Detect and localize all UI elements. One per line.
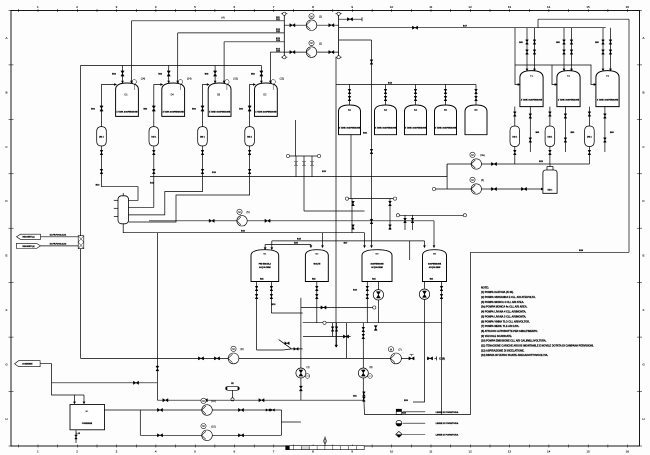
- wire long line y400: [157, 399, 364, 401]
- wire capsule 4 drain: [129, 146, 250, 222]
- wire pump line B: [284, 51, 338, 53]
- wire right feed drop tank D2: [269, 52, 271, 83]
- valve feed T1 1b: [533, 50, 536, 54]
- valve feed T2 1b: [570, 50, 573, 54]
- wire right collect line y164: [447, 163, 589, 165]
- wire riser x346: [346, 323, 348, 359]
- wire branch y40: [339, 39, 372, 41]
- dpump M4: [419, 289, 429, 299]
- wire long line y220: [149, 220, 434, 222]
- wire top distribution riser: [537, 19, 539, 28]
- valve left feed tank D2: [260, 71, 263, 76]
- wire mid tanks header: [336, 84, 476, 86]
- pump P3a: [471, 159, 481, 169]
- valve tank drain right 3a: [604, 114, 607, 118]
- svg-text:LINEE DI FORNITURA: LINEE DI FORNITURA: [436, 422, 459, 425]
- feed line 3: [224, 41, 284, 43]
- valve feed T1 0a: [526, 40, 529, 44]
- svg-text:15: 15: [586, 449, 590, 453]
- svg-text:M: M: [202, 424, 204, 428]
- valve capsule bottom1 1: [100, 150, 103, 154]
- wire capsule feed right 2: [549, 107, 551, 126]
- svg-text:CONDENSE: CONDENSE: [22, 364, 33, 366]
- svg-text:NOTE:: NOTE:: [481, 286, 489, 289]
- wire loop bottom line: [140, 434, 281, 436]
- svg-text:10: 10: [390, 5, 394, 9]
- svg-text:(5) POMPA LIVANA 3 CLL ARI/MON: (5) POMPA LIVANA 3 CLL ARI/MONTA.: [481, 315, 527, 318]
- border ruler ticks: [17, 9, 19, 12]
- wire pump line A: [284, 24, 338, 26]
- svg-text:(10) POMPA EMISSIONE CLL ARI C: (10) POMPA EMISSIONE CLL ARI CALI/MILL/V…: [481, 340, 547, 343]
- wire left feed drop tank D1: [122, 66, 124, 84]
- valve H1 drop1: [295, 161, 298, 165]
- svg-text:(13) RINVIA IN VETRO PIANTE AR: (13) RINVIA IN VETRO PIANTE ARECA/SOTTOV…: [481, 354, 548, 357]
- svg-text:M: M: [390, 347, 392, 351]
- valve M1 right a: [270, 286, 273, 290]
- inst P1: [305, 374, 310, 379]
- wire line y307: [301, 307, 374, 309]
- svg-text:PRE MISCELA: PRE MISCELA: [259, 263, 272, 266]
- pump P9: [228, 353, 239, 364]
- wire capsule 1 drain: [102, 146, 139, 200]
- wire tank drain right 3: [604, 107, 606, 152]
- wire left feed drop tank D4: [168, 66, 170, 84]
- vessel KM1: [543, 170, 557, 193]
- valve feed T1 0b: [526, 50, 529, 54]
- svg-text:(3) POMPA MONCA 4 CLL ARI ATEA: (3) POMPA MONCA 4 CLL ARI ATEA.: [481, 301, 524, 304]
- svg-text:(8): (8): [370, 366, 373, 369]
- wire riser x377 low: [377, 308, 379, 323]
- feed line 2: [178, 32, 285, 34]
- wire right feed drop tank D5: [223, 42, 225, 83]
- valve M2 a: [315, 286, 318, 290]
- valve y307: [321, 306, 326, 309]
- valve loop bottom b: [238, 434, 243, 437]
- wire B1 outlet: [105, 409, 141, 411]
- valve M3 left b: [366, 294, 369, 298]
- capsule DM1: [97, 127, 107, 146]
- wire line y322: [303, 322, 442, 324]
- offpage connector REAGENT 2: [17, 243, 41, 248]
- svg-text:A: A: [642, 36, 644, 40]
- valve feed T2 0a: [563, 40, 566, 44]
- svg-text:M: M: [471, 153, 473, 157]
- valve y400 a: [163, 399, 168, 402]
- wire M2 right feed: [322, 233, 324, 248]
- wire capsule right drain 1: [514, 147, 516, 165]
- header H3 drop 1: [404, 215, 406, 230]
- valve tank drain right 2b: [564, 138, 567, 142]
- valve P3a out: [491, 162, 496, 165]
- valve feed B2 a: [348, 89, 351, 93]
- valve P1 below: [299, 386, 302, 391]
- motor M P7: [388, 347, 393, 352]
- valve capsule bottom1 3: [201, 150, 204, 154]
- svg-text:B21: B21: [353, 396, 356, 398]
- wire long line y358: [81, 357, 410, 359]
- svg-text:(14): (14): [141, 78, 146, 81]
- tank M2: [305, 250, 328, 282]
- svg-text:(10): (10): [211, 400, 215, 403]
- svg-text:X TANK SOSPENSIONE: X TANK SOSPENSIONE: [521, 99, 543, 102]
- svg-text:X TANK SOSPENSIONE: X TANK SOSPENSIONE: [209, 111, 231, 114]
- wire right tanks hook header: [515, 64, 592, 66]
- wire connector 2 line: [41, 245, 79, 247]
- valve capsule right bottom 2: [549, 150, 552, 154]
- svg-text:B21: B21: [260, 279, 263, 281]
- valve capsule bottom2 3: [201, 169, 204, 173]
- svg-text:A: A: [5, 36, 7, 40]
- svg-text:B09: B09: [610, 132, 613, 134]
- svg-text:VIOLITE: VIOLITE: [313, 264, 321, 266]
- svg-text:H: H: [5, 417, 7, 421]
- wire feed drop T1 0: [526, 28, 528, 71]
- wire M3 feed elbow: [364, 233, 366, 248]
- legend line sq: [403, 411, 426, 413]
- svg-text:(4): (4): [221, 15, 224, 19]
- svg-text:X TANK SOSPENSIONE: X TANK SOSPENSIONE: [435, 127, 457, 130]
- svg-text:(9): (9): [240, 348, 243, 351]
- wire riser x363: [362, 323, 364, 368]
- valve y358 d: [427, 357, 432, 360]
- valve feed T2 1a: [570, 40, 573, 44]
- valve feed T3 1b: [609, 50, 612, 54]
- valve on second distribution line: [412, 26, 417, 29]
- svg-text:(5): (5): [246, 211, 249, 214]
- wire capsule feed right 1: [514, 107, 516, 126]
- wire capsule right drain 3: [588, 147, 590, 165]
- valve feed T3 0a: [602, 40, 605, 44]
- legend icon ci: [396, 420, 402, 426]
- tank B2: [339, 105, 361, 135]
- valve capsule top 4: [248, 106, 251, 111]
- motor M P10a: [201, 398, 206, 403]
- svg-text:12: 12: [468, 449, 472, 453]
- svg-text:LINEE DI FORNITURA: LINEE DI FORNITURA: [436, 433, 459, 436]
- valve left feed tank D5: [213, 71, 216, 76]
- valve M1 right b: [270, 294, 273, 298]
- wire loop top line: [140, 409, 281, 411]
- wire long line y176: [150, 176, 447, 178]
- wire vent stub M4: [409, 241, 411, 260]
- wire feed drop T3 0: [602, 28, 604, 71]
- wire capsule hook tank 1: [102, 85, 117, 127]
- svg-text:(11) TENACIONE CARICHE AROUS I: (11) TENACIONE CARICHE AROUS IMONTANILE …: [481, 345, 594, 348]
- wire capsule hook tank 3: [203, 85, 210, 127]
- wire second inlet B1: [83, 395, 85, 404]
- offpage connector REAGENT 1: [17, 234, 41, 239]
- valve y336: [343, 335, 348, 338]
- pump P8: [358, 368, 368, 378]
- valve feed B3 b: [384, 96, 387, 100]
- valve capsule bottom1 2: [152, 150, 155, 154]
- wire riser x371 lower: [371, 199, 373, 248]
- capsule DM right 3: [585, 126, 595, 147]
- wire feed drop T1 1: [534, 28, 536, 71]
- capsule DM right 1: [510, 126, 520, 147]
- valve M4 right a: [440, 286, 443, 290]
- wire long line y232: [156, 232, 365, 234]
- agitator circle tank D2: [271, 80, 275, 84]
- wire riser x300 to y400: [300, 378, 302, 400]
- column V1 nozzle 1: [114, 199, 118, 201]
- valve feed B5 b: [444, 96, 447, 100]
- valve feed B2 b: [348, 96, 351, 100]
- wire hook into T2: [552, 65, 557, 85]
- pump P7: [391, 353, 402, 364]
- wire M3 pump out: [377, 300, 379, 308]
- svg-text:13: 13: [508, 449, 512, 453]
- wire line y414: [365, 414, 471, 416]
- wire second distribution line: [339, 27, 606, 29]
- valve capsule right top 2: [549, 112, 552, 116]
- tank B4: [405, 105, 427, 135]
- wire long riser x336: [335, 57, 337, 347]
- valve capsule right top 1: [513, 112, 516, 116]
- wire right feed drop tank D1: [131, 21, 133, 83]
- capsule DM4: [245, 127, 255, 146]
- svg-text:M: M: [310, 41, 312, 45]
- svg-text:F: F: [6, 308, 8, 312]
- wire capsule feed right 3: [588, 107, 590, 126]
- svg-text:M: M: [202, 399, 204, 403]
- tank B1: [70, 405, 105, 430]
- svg-text:B: B: [642, 90, 644, 94]
- motor M P6: [237, 209, 242, 214]
- wire COND drop: [40, 364, 74, 404]
- valve feed B4 b: [414, 96, 417, 100]
- header H1 drop 2: [303, 156, 305, 211]
- valve x371 c: [370, 219, 373, 223]
- wire M3 drop left: [366, 282, 368, 323]
- wire feed drop T2 1: [571, 28, 573, 71]
- svg-text:E: E: [5, 254, 7, 258]
- svg-text:13: 13: [508, 5, 512, 9]
- valve feed T3 1a: [609, 40, 612, 44]
- wire riser x364 to y414: [362, 378, 364, 400]
- pump P1: [296, 368, 306, 378]
- capsule DM2: [149, 127, 159, 146]
- svg-text:(12): (12): [280, 78, 285, 81]
- filter F1: [78, 236, 84, 249]
- header H1 drop 1: [295, 156, 297, 177]
- valve on pump line A left: [290, 24, 295, 27]
- feed line 4: [270, 51, 284, 53]
- svg-text:F: F: [643, 308, 645, 312]
- wire riser x300 down: [300, 298, 302, 368]
- column V1: [118, 196, 129, 224]
- valve H3 drop2: [411, 218, 414, 222]
- wire long line y240: [272, 240, 425, 242]
- svg-text:(14): (14): [187, 78, 192, 81]
- wire strainer drop: [232, 390, 234, 397]
- valve M3 left a: [366, 286, 369, 290]
- valve capsule right top 3: [588, 112, 591, 116]
- svg-text:(9) VALVOLE SCARICATE.: (9) VALVOLE SCARICATE.: [481, 335, 512, 338]
- motor M P9: [231, 346, 236, 351]
- wire M2 drop: [316, 282, 318, 323]
- svg-text:(7) POMPA MEDIL TLE ARI LIVA.: (7) POMPA MEDIL TLE ARI LIVA.: [481, 325, 520, 328]
- svg-text:X TANK SOSPENSIONE: X TANK SOSPENSIONE: [375, 127, 397, 130]
- wire feed drop tank B6: [475, 85, 477, 106]
- svg-text:X TANK SOSPENSIONE: X TANK SOSPENSIONE: [597, 99, 619, 102]
- valve tank drain right 1a: [529, 114, 532, 118]
- svg-text:B: B: [5, 90, 7, 94]
- svg-text:ACQUA DEMI: ACQUA DEMI: [429, 266, 441, 269]
- valve tank B1 drain: [75, 435, 77, 439]
- svg-text:X TANK SOSPENSIONE: X TANK SOSPENSIONE: [163, 111, 185, 114]
- tank M1: [251, 250, 279, 282]
- svg-text:(3): (3): [481, 179, 484, 182]
- valve feed B4 a: [414, 89, 417, 93]
- tank T1: [520, 71, 543, 107]
- valve capsule bottom2 2: [152, 169, 155, 173]
- header H2: [347, 198, 395, 200]
- tank M4: [423, 250, 447, 282]
- valve feed T3 0b: [602, 50, 605, 54]
- wire pump connect riser: [446, 164, 448, 189]
- svg-text:B21: B21: [430, 279, 433, 281]
- valve tank drain right 2a: [564, 114, 567, 118]
- legend line ci: [403, 422, 426, 424]
- svg-text:REAGENTI (b): REAGENTI (b): [22, 245, 34, 248]
- valve H1 drop3: [311, 161, 314, 165]
- valve KM inlet: [521, 187, 526, 190]
- valve P8 below a: [363, 392, 366, 396]
- svg-text:B21: B21: [372, 279, 375, 281]
- valve capsule right bottom 1: [513, 150, 516, 154]
- wire line y244: [265, 244, 311, 246]
- valve capsule bottom2 1: [100, 169, 103, 173]
- svg-text:16: 16: [626, 449, 630, 453]
- vessel KM1 top stubs: [546, 167, 548, 171]
- wire feed drop T3 1: [610, 28, 612, 71]
- svg-text:(1): (1): [319, 14, 322, 18]
- wire KM1 feed: [549, 164, 551, 167]
- valve feed T1 1a: [533, 40, 536, 44]
- wire capsule 2 drain: [129, 146, 154, 207]
- svg-text:(12) ASPIRAZIONE DI SICELATION: (12) ASPIRAZIONE DI SICELATIONE.: [481, 349, 525, 352]
- valve on y220 line a: [209, 219, 214, 222]
- valve on top distribution line: [347, 18, 352, 21]
- valve M1 left b: [255, 294, 258, 298]
- valve left feed tank D1: [121, 71, 124, 76]
- wire capsule right drain 2: [549, 147, 551, 165]
- tank B6: [465, 105, 487, 135]
- motor M P1a: [309, 14, 314, 19]
- header H1: [288, 155, 319, 157]
- svg-text:10: 10: [390, 449, 394, 453]
- svg-text:C (8): C (8): [439, 357, 445, 361]
- valve x371 b: [370, 149, 373, 153]
- svg-text:(3a) POMPA MONCA 4a CLL ARI AR: (3a) POMPA MONCA 4a CLL ARI AREA.: [481, 306, 528, 309]
- wire top distribution line: [538, 18, 629, 20]
- svg-text:11: 11: [429, 449, 432, 453]
- svg-text:M: M: [238, 210, 240, 214]
- svg-text:(6) POMPA VINNA TLO CLL ARI/VO: (6) POMPA VINNA TLO CLL ARI/VOLTOR.: [481, 320, 530, 323]
- svg-text:X TANK SOSPENSIONE: X TANK SOSPENSIONE: [116, 111, 138, 114]
- svg-text:REAGENTI (a): REAGENTI (a): [23, 236, 35, 239]
- svg-text:15: 15: [586, 5, 590, 9]
- svg-text:B05: B05: [595, 42, 598, 44]
- wire header y65: [81, 65, 262, 67]
- header H2 drop 2: [389, 199, 391, 230]
- svg-text:L.10: L.10: [76, 433, 80, 435]
- svg-text:14: 14: [547, 449, 551, 453]
- dpump M3: [373, 290, 383, 300]
- svg-text:B05: B05: [519, 42, 522, 44]
- valve H2 drop2 a: [389, 201, 392, 205]
- svg-text:(13): (13): [233, 78, 238, 81]
- valve H3 drop1: [404, 218, 407, 222]
- wire tank drain right 1: [529, 107, 531, 152]
- valve y358 a: [198, 357, 203, 360]
- valve feed B6 b: [475, 96, 478, 100]
- wire feed drop T2 0: [563, 28, 565, 71]
- capsule DM right 2: [545, 126, 555, 147]
- svg-text:M: M: [310, 14, 312, 18]
- svg-text:X TANK SOSPENSIONE: X TANK SOSPENSIONE: [255, 111, 277, 114]
- offpage connector COND: [15, 361, 40, 367]
- tank D4: [162, 83, 185, 116]
- svg-text:LINEE DI FORNITURA: LINEE DI FORNITURA: [436, 411, 459, 414]
- column V1 nozzle 2: [114, 207, 118, 209]
- wire connector 1 line: [41, 236, 79, 238]
- svg-text:ACQUA DEMI: ACQUA DEMI: [371, 266, 383, 269]
- header H1 drop 3: [311, 156, 313, 177]
- wire dangle b: [336, 323, 338, 347]
- motor M P10b: [201, 424, 206, 429]
- valve feed T2 0b: [563, 50, 566, 54]
- valve loop top b: [238, 408, 243, 411]
- wire capsule hook tank 4: [250, 85, 256, 127]
- valve tank drain right 3b: [604, 138, 607, 142]
- wire M1 drop right: [270, 282, 272, 314]
- scale bar marker: [323, 438, 327, 444]
- valve bypass b: [294, 348, 298, 351]
- wire loop join stub: [282, 421, 301, 423]
- valve capsule bottom2 4: [248, 169, 251, 173]
- svg-text:(1): (1): [307, 366, 310, 369]
- svg-text:12: 12: [468, 5, 472, 9]
- wire M3 drop right: [377, 282, 379, 290]
- wire M4 feed elbow 2: [424, 241, 426, 248]
- wire H1 riser: [295, 120, 297, 156]
- svg-text:(3a): (3a): [480, 154, 485, 157]
- valve on pump line B right: [329, 50, 334, 53]
- wire riser x371 upper: [371, 40, 373, 199]
- wire M4 feed elbow: [433, 221, 435, 248]
- svg-text:X TANK SOSPENSIONE: X TANK SOSPENSIONE: [339, 127, 361, 130]
- valve bypass a: [285, 342, 289, 345]
- tank T2: [557, 71, 580, 107]
- svg-text:M: M: [471, 178, 473, 182]
- valve y358 c: [409, 357, 414, 360]
- wire top distribution stub: [339, 18, 362, 20]
- tank B3: [375, 105, 397, 135]
- wire riser x157 lower: [156, 233, 158, 401]
- valve y400 b: [202, 399, 207, 402]
- valve capsule bottom1 4: [248, 150, 251, 154]
- svg-text:B09: B09: [571, 132, 574, 134]
- valve y358 b: [214, 357, 219, 360]
- wire pump line y189: [434, 188, 543, 190]
- wire capsule hook tank 2: [154, 85, 163, 127]
- svg-text:11: 11: [429, 5, 432, 9]
- valve x363 dark: [374, 326, 377, 331]
- wire right feed drop tank D4: [177, 33, 179, 83]
- agitator circle tank D5: [225, 80, 229, 84]
